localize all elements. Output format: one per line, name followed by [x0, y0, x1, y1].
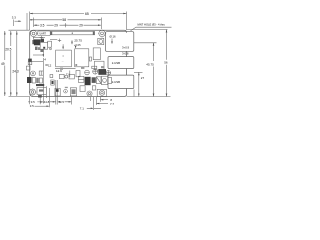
bl ticks	[40, 88, 49, 107]
led circle	[64, 89, 68, 93]
dim 65 line	[30, 13, 127, 15]
svg-text:29: 29	[54, 24, 58, 28]
bottom edge connector 2	[55, 88, 60, 96]
cap plus circle 2	[106, 71, 111, 76]
svg-text:44.8: 44.8	[44, 100, 50, 104]
hole bottom-right square	[97, 89, 106, 96]
leader in jack	[111, 39, 113, 44]
row A arrow	[28, 101, 43, 103]
cluster leader line	[33, 37, 45, 39]
line under left parts	[31, 60, 43, 62]
tick 7	[68, 71, 69, 78]
svg-text:20.5: 20.5	[5, 47, 11, 51]
dark block 2	[92, 77, 96, 83]
right small rect	[108, 77, 112, 83]
bottom edge ext left	[9, 96, 30, 98]
IC B	[75, 49, 89, 67]
dark chip 2	[41, 39, 44, 43]
svg-text:7.7: 7.7	[110, 102, 114, 106]
edge sliver	[32, 40, 34, 44]
svg-text:25.75: 25.75	[74, 38, 82, 42]
gray bits below	[35, 47, 38, 50]
right dim 56	[166, 30, 168, 97]
long ext x43.3	[42, 52, 44, 57]
left edge part 1	[28, 59, 32, 62]
hole bottom-left	[30, 89, 36, 95]
down arrow b	[75, 47, 77, 48]
dark chip 1	[34, 40, 40, 45]
svg-text:UART: UART	[40, 32, 47, 35]
svg-text:3-0.8: 3-0.8	[122, 51, 129, 55]
usb jack 2	[108, 75, 134, 88]
rect C	[93, 48, 100, 60]
rects right of pair	[36, 78, 39, 83]
top edge ext right	[127, 29, 168, 31]
uart header	[38, 31, 50, 36]
svg-text:MNT HOLE Ø3 - 4 thru: MNT HOLE Ø3 - 4 thru	[138, 23, 166, 27]
svg-text:56: 56	[164, 61, 168, 65]
svg-text:···: ···	[62, 61, 65, 64]
bottom edge ext right	[127, 96, 171, 98]
note leader	[131, 27, 172, 31]
cross tick b	[58, 39, 61, 42]
svg-text:Ø.16: Ø.16	[110, 35, 117, 39]
top edge ext left	[9, 29, 30, 31]
leader line y39.7	[50, 39, 57, 41]
square pad hole	[98, 38, 104, 44]
cap plus circle	[93, 69, 98, 74]
svg-text:2-USB: 2-USB	[112, 61, 120, 65]
mini ext tick	[26, 13, 28, 30]
ethernet jack	[106, 32, 134, 52]
parts below IC A	[60, 74, 65, 78]
lower rect	[80, 86, 85, 92]
svg-text:45.75: 45.75	[146, 62, 154, 66]
bl ext left edge	[29, 97, 31, 105]
ext line hole-right	[101, 18, 103, 30]
down arrow a	[71, 40, 73, 44]
tiny circle	[50, 48, 52, 50]
component left of connector 2	[51, 80, 54, 85]
usb jack 1	[108, 57, 134, 69]
battery conn	[78, 76, 84, 82]
center cross tick	[64, 23, 68, 27]
svg-text:3+0.9: 3+0.9	[122, 45, 130, 49]
gpio long header	[50, 31, 94, 34]
svg-text:65: 65	[85, 12, 89, 16]
bottom-right ticks	[90, 97, 100, 110]
cross tick a	[40, 36, 43, 39]
cap minus circle	[85, 70, 90, 75]
dark block 1	[85, 77, 91, 85]
bottom edge connector 3	[70, 88, 76, 96]
board outline	[30, 30, 127, 96]
crystal outline	[40, 42, 48, 49]
left dim line x10.8	[10, 31, 12, 96]
svg-text:27: 27	[141, 76, 145, 80]
dim line under IC A	[55, 68, 76, 70]
ext line hole-left	[33, 18, 35, 28]
small rect right	[48, 41, 52, 47]
svg-text:29: 29	[79, 24, 83, 28]
audio jack dark	[99, 69, 106, 74]
bottom edge connector 1	[37, 88, 46, 95]
IC A	[56, 50, 72, 67]
hole bottom-right	[99, 90, 104, 95]
x rect	[96, 77, 101, 84]
left edge part 2	[26, 66, 30, 70]
right dim 45.75	[134, 42, 157, 44]
hole top-right	[99, 30, 105, 36]
label 12	[45, 64, 48, 66]
tiny top bits	[81, 67, 84, 69]
extra tick	[133, 90, 135, 97]
via circle bottom	[87, 91, 92, 96]
svg-text:24.3: 24.3	[12, 70, 18, 74]
ext line right of 65	[126, 12, 128, 31]
hole top-left	[30, 30, 36, 36]
row B leader	[35, 105, 49, 107]
svg-text:49: 49	[1, 62, 5, 66]
dim line y55	[33, 54, 44, 56]
dim 7.7	[97, 103, 108, 105]
dim 8	[101, 99, 108, 101]
svg-text:3.3: 3.3	[12, 16, 16, 20]
svg-text:3.5: 3.5	[30, 104, 34, 108]
down arrow c	[62, 44, 64, 48]
coin cell circle	[31, 71, 36, 76]
left dim 49	[4, 31, 6, 96]
dark rect pair lower-left	[27, 77, 32, 83]
svg-text:7.1: 7.1	[80, 106, 84, 110]
svg-text:58: 58	[62, 18, 66, 22]
svg-text:12: 12	[48, 63, 52, 67]
right dim 27	[134, 71, 143, 73]
small marks	[39, 71, 43, 75]
rect D	[95, 61, 105, 70]
tab right of IC B	[89, 57, 91, 61]
rect with circle	[102, 76, 108, 85]
dim 3.5 29 row	[34, 24, 101, 26]
ext line left edge top	[29, 12, 31, 31]
svg-text:3.5: 3.5	[40, 23, 45, 27]
dim 58 line	[30, 19, 102, 21]
ext lines into board	[56, 80, 57, 97]
left dim line x16.8	[16, 31, 18, 96]
mid cluster: small ic	[76, 71, 80, 77]
svg-text:2-USB: 2-USB	[112, 80, 120, 84]
dark strip above connector 1	[36, 84, 44, 86]
small rect	[92, 86, 95, 90]
